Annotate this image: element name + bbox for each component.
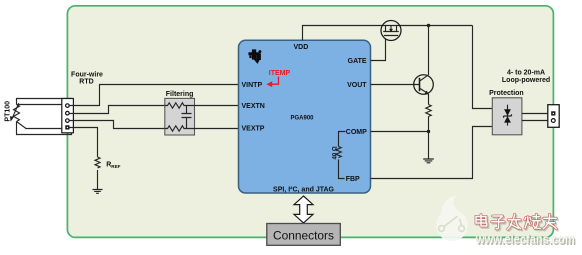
svg-text:FBP: FBP [346,176,360,183]
svg-text:RTD: RTD [79,79,93,86]
filter top series resistor [165,103,195,108]
ground (RREF) [93,190,103,194]
filter capacitor C1 [182,106,192,129]
wire pin2 to filter top [69,106,165,114]
board outline (green evaluation board boundary) [67,6,553,238]
svg-text:PT100: PT100 [4,101,11,122]
J2 pin 1 (square) [551,111,555,115]
transistor Q2 (NPN) [414,75,434,95]
svg-text:VINTP: VINTP [242,82,263,89]
RTD resistor element [14,105,20,122]
resistor RREF [95,157,100,168]
svg-text:VEXTP: VEXTP [242,126,265,133]
RTD arrow [12,103,19,118]
wire FBP to protection [371,127,493,179]
SPI/JTAG double arrow [294,196,313,223]
svg-text:GATE: GATE [348,58,367,65]
J2 pin 2 [551,119,555,123]
wire GATE to MOSFET gate [371,39,386,61]
svg-text:PGA900: PGA900 [290,115,314,121]
svg-text:Four-wire: Four-wire [71,72,103,79]
TVS diode D1 (bidirectional) [507,105,509,126]
resistor R1 (emitter) [426,105,431,117]
wire VDD up and across [303,26,473,41]
pin 4 (square pin) [65,125,69,129]
svg-text:4- to 20-mA: 4- to 20-mA [507,70,545,77]
wire RTD inner bottom lead [17,122,62,129]
connector J1 (4-pin field connector) [62,99,74,133]
wire RREF to ground [97,170,99,189]
pin 3 [66,119,70,123]
svg-text:www.elecfans.com: www.elecfans.com [475,233,575,247]
internal 40-ohm resistor between COMP and FBP [339,132,346,179]
TI logo [248,49,261,64]
wire pin3 to filter bottom [69,121,165,129]
node junction at MOSFET drain rail [427,24,430,27]
svg-text:Connectors: Connectors [273,231,334,243]
svg-text:REF: REF [111,164,120,169]
wire protection to J2 pin1 [522,113,548,115]
PT100 sensor box [17,99,72,135]
wire pin4 to RREF [69,128,97,158]
connectors box [267,224,341,246]
ground (emitter network) [423,159,434,163]
watermark chinese characters (drawn strokes) [476,214,558,230]
MOSFET Q1 [381,21,401,41]
pin 1 [66,104,70,108]
wire rail down to protection top input [473,26,493,109]
svg-text:Protection: Protection [489,90,524,97]
wire COMP to junction [371,131,429,133]
op-amp / PGA900 device U1 [239,40,371,193]
pin 2 [66,111,70,115]
svg-text:ITEMP: ITEMP [269,70,291,77]
wire resistor to ground [428,117,430,159]
wire protection to J2 pin2 [522,120,548,122]
watermark logo (elecfans) [436,195,468,241]
node junction COMP/emitter [427,130,430,133]
protection block [492,98,522,135]
filter block [165,98,195,135]
connector J2 (loop connector) [548,105,559,128]
svg-text:VDD: VDD [294,44,309,51]
wire filter to VEXTN [195,105,239,107]
ITEMP arrow [270,77,279,85]
svg-text:VOUT: VOUT [347,82,367,89]
svg-text:Loop-powered: Loop-powered [502,77,550,84]
wire junction down to BJT collector [428,26,430,75]
svg-text:40 Ω: 40 Ω [332,146,338,159]
wire pin1 to VINTP [69,85,238,106]
svg-text:VEXTN: VEXTN [242,103,265,110]
wire RTD inner top lead [17,104,62,106]
wire emitter down [428,94,430,105]
wire VOUT to BJT base [371,84,420,86]
filter bottom series resistor [165,126,195,131]
svg-text:SPI, I²C, and JTAG: SPI, I²C, and JTAG [273,186,334,193]
svg-text:COMP: COMP [346,129,367,136]
svg-text:Filtering: Filtering [166,91,194,98]
wire filter to VEXTP [195,128,239,130]
